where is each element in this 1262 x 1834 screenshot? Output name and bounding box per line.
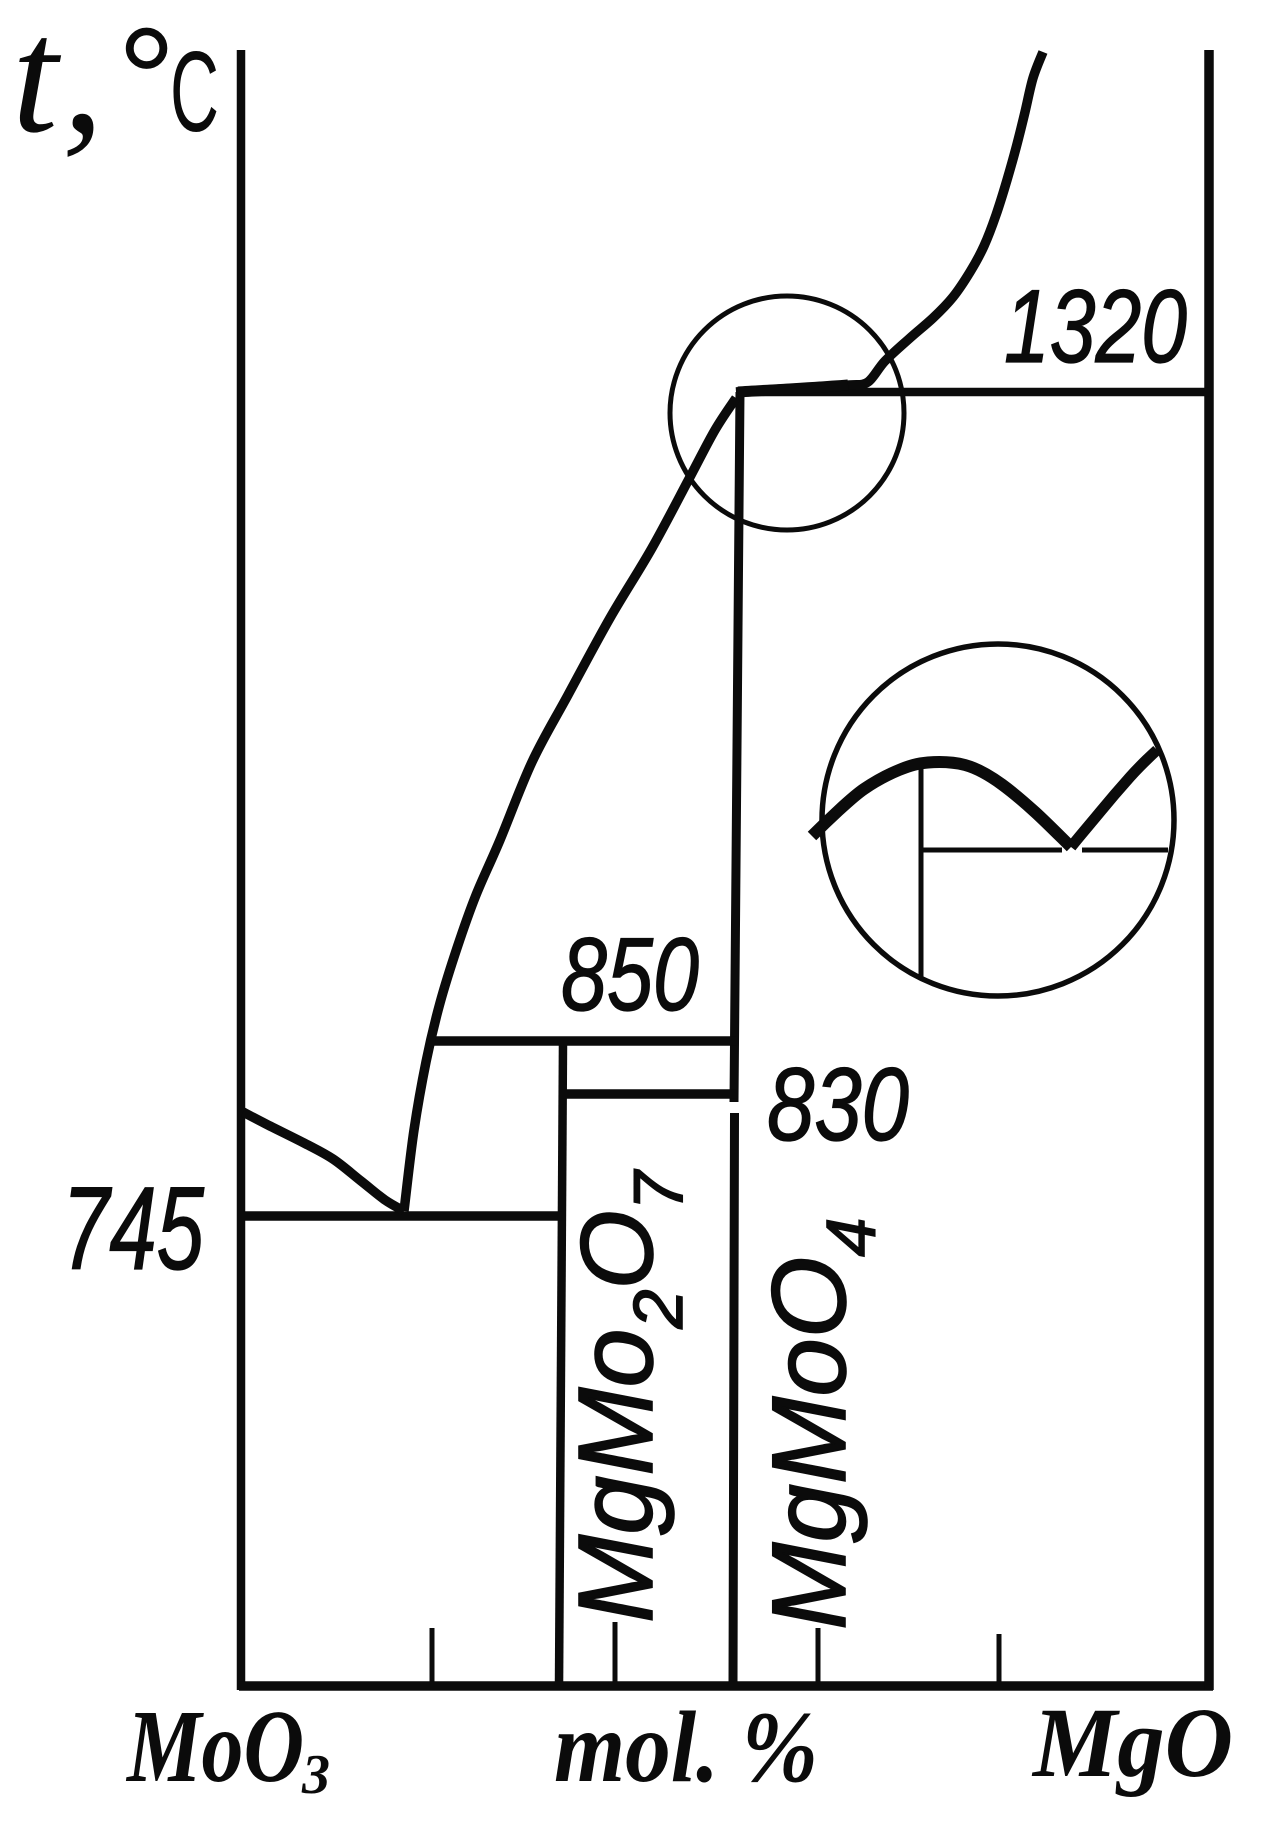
tick x=999 bbox=[997, 1634, 1002, 1686]
745 eutectic line bbox=[243, 1211, 562, 1221]
magnifier circle (small, at peritectic point) bbox=[670, 296, 904, 530]
svg-text:1320: 1320 bbox=[1004, 269, 1187, 385]
svg-text:3: 3 bbox=[301, 1744, 330, 1806]
steep right liquidus branch (MgO liquidus) bbox=[736, 52, 1043, 392]
left liquidus curve bbox=[243, 1112, 404, 1211]
850 isotherm line bbox=[431, 1036, 736, 1046]
right axis (MgO side) bbox=[1204, 50, 1214, 1690]
svg-text:mol. %: mol. % bbox=[554, 1691, 818, 1804]
MgMoO4 compound vertical line bbox=[733, 392, 740, 1686]
830 isotherm line bbox=[561, 1089, 736, 1099]
svg-text:850: 850 bbox=[561, 917, 699, 1033]
inset eutectic horizontal line (with gap at cusp) bbox=[921, 848, 1168, 853]
inset compound vertical line bbox=[919, 766, 924, 977]
tick x=615 bbox=[613, 1622, 618, 1686]
y axis (left) bbox=[237, 50, 246, 1690]
svg-text:MoO: MoO bbox=[125, 1689, 304, 1804]
svg-text:830: 830 bbox=[767, 1047, 909, 1163]
tick x=818 bbox=[816, 1628, 821, 1686]
svg-text:MgO: MgO bbox=[1031, 1687, 1233, 1798]
MgMo2O7 compound vertical line bbox=[559, 1043, 563, 1686]
svg-text:C: C bbox=[170, 29, 219, 156]
peritectic tangent blob bbox=[738, 385, 848, 392]
svg-text:,: , bbox=[62, 0, 104, 168]
tick x=432 bbox=[430, 1628, 435, 1686]
1320 isotherm line bbox=[737, 388, 1209, 397]
inset liquidus hump bbox=[812, 762, 1071, 847]
svg-text:t: t bbox=[12, 0, 62, 167]
x axis (bottom) bbox=[239, 1681, 1213, 1691]
inset magnifier circle (detail blow-up) bbox=[822, 644, 1174, 996]
inset right liquidus rise bbox=[1071, 750, 1157, 847]
svg-text:745: 745 bbox=[62, 1163, 204, 1295]
rising liquidus curve (MgMoO4 liquidus) bbox=[404, 398, 736, 1211]
svg-text:°: ° bbox=[117, 0, 176, 163]
